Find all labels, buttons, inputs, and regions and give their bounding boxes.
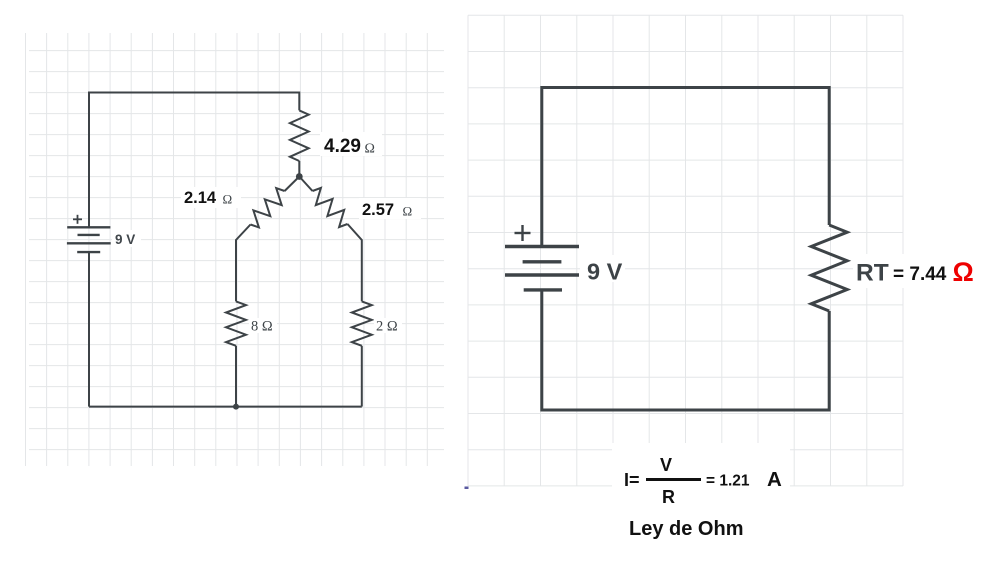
resistor 2 ohm (right branch) <box>352 301 372 345</box>
svg-text:= 1.21: = 1.21 <box>706 473 750 490</box>
node: bottom junction dot <box>233 404 239 410</box>
value label 2 ohm <box>374 318 402 333</box>
wire: right circuit top <box>542 88 829 247</box>
svg-text:2 Ω: 2 Ω <box>376 319 398 335</box>
value label 8 ohm <box>249 318 277 333</box>
svg-text:Ω: Ω <box>223 192 233 207</box>
svg-text:RT: RT <box>856 260 889 287</box>
svg-text:2.57: 2.57 <box>362 201 394 219</box>
value label 9 V, left battery <box>112 230 141 247</box>
wire: resistor 2 ohm to bottom <box>361 346 363 407</box>
resistor 2.14 ohm (diagonal left) <box>251 188 285 227</box>
wire: battery top lead stub <box>88 218 90 227</box>
wire: resistor 2.57 to right branch corner <box>348 224 362 301</box>
plus polarity symbol, right battery <box>515 225 531 241</box>
value label 2.14 ohm <box>181 187 241 208</box>
svg-text:2.14: 2.14 <box>184 189 217 207</box>
resistor 4.29 ohm (vertical, top) <box>290 110 309 161</box>
wire: node to resistor 2.57 <box>299 177 312 192</box>
wire: resistor 8 ohm to bottom <box>235 346 237 407</box>
wire: node to resistor 2.14 <box>285 177 300 192</box>
white panel behind Ohm's-law formula <box>612 443 790 512</box>
wire: right circuit bottom <box>542 290 829 410</box>
svg-text:I=: I= <box>624 470 640 490</box>
svg-text:8 Ω: 8 Ω <box>251 319 273 335</box>
plus polarity symbol, left battery <box>73 215 82 224</box>
svg-text:= 7.44: = 7.44 <box>893 264 947 285</box>
svg-text:Ω: Ω <box>365 142 375 157</box>
value label 2.57 ohm <box>359 198 421 219</box>
resistor RT (equivalent resistance) <box>811 225 847 311</box>
value label 9 V, right battery <box>580 255 625 282</box>
stray mark speck <box>465 487 469 490</box>
value label 4.29 ohm <box>320 132 382 156</box>
wire: left circuit left side below battery <box>88 252 90 407</box>
wire: left circuit bottom <box>89 406 362 408</box>
node: Y junction dot <box>296 173 303 180</box>
white panel behind RT label <box>853 254 991 288</box>
svg-text:4.29: 4.29 <box>324 136 361 157</box>
fraction bar <box>646 478 701 481</box>
battery B1 (9 V source, left circuit) <box>67 227 111 252</box>
wire: left circuit top <box>89 93 299 228</box>
resistor 2.57 ohm (diagonal right) <box>313 188 348 227</box>
svg-text:A: A <box>767 468 782 491</box>
wire: resistor 2.14 to left branch corner <box>236 225 251 302</box>
svg-text:R: R <box>662 487 675 507</box>
svg-text:9 V: 9 V <box>115 232 135 247</box>
svg-text:V: V <box>660 455 672 475</box>
svg-text:Ley de Ohm: Ley de Ohm <box>629 518 743 540</box>
resistor 8 ohm (left branch) <box>226 301 246 345</box>
svg-text:Ω: Ω <box>403 204 413 219</box>
wire: resistor 4.29 to node <box>298 161 300 177</box>
svg-text:9 V: 9 V <box>587 259 623 285</box>
svg-text:Ω: Ω <box>953 257 974 287</box>
battery B2 (9 V source, right circuit) <box>505 247 579 290</box>
